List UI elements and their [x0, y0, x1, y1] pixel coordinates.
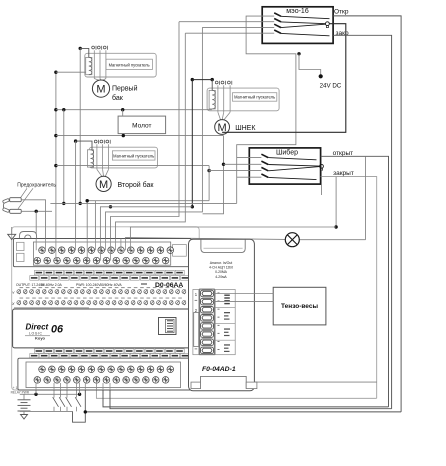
wire module to scales +: [211, 293, 273, 295]
wire Shiber common down stub: [321, 170, 323, 195]
svg-text:М: М: [96, 84, 105, 96]
magnetic starter KM2 (Shnek): [207, 88, 279, 111]
junction B1/y136: [54, 134, 57, 137]
svg-text:Молот: Молот: [132, 122, 151, 129]
junction Molot bottom: [122, 134, 125, 137]
phase contacts KM1 (Pervyi bak): [93, 50, 95, 78]
motor KM3 (Vtoroi bak): [96, 176, 111, 191]
wire stubs entering PLC top terminals: [35, 239, 37, 251]
contactor coil KM2 (Shnek): [209, 90, 215, 109]
PLC bottom terminal strip: [18, 358, 191, 390]
svg-text:Магнитный пускатель: Магнитный пускатель: [113, 153, 154, 158]
junction x110/y207: [109, 205, 112, 208]
top strip screw terminals row 2: [34, 257, 169, 264]
phase contacts KM2 (Shnek): [217, 85, 219, 112]
wire otkryt bottom run: [103, 390, 389, 407]
wire Otkr bottom run: [85, 411, 401, 413]
svg-text:4-20мА: 4-20мА: [215, 275, 227, 279]
motor KM2 (Shnek): [215, 120, 230, 135]
switch contacts inside Shiber: [261, 154, 268, 157]
indicator lamp HL1: [285, 233, 299, 247]
svg-text:Direct: Direct: [26, 323, 49, 332]
bottom strip screw terminals row 1: [39, 366, 174, 373]
wire KM1 coil top feed: [80, 48, 89, 57]
junction B1/y110: [54, 108, 57, 111]
analog module F0-04AD-1 body: [189, 239, 255, 391]
wire battery top: [23, 394, 25, 400]
PLC right DIN ear: [194, 313, 199, 347]
wire zakr right loop: [333, 35, 392, 408]
magnetic starter KM3 (Vtoroi bak): [89, 147, 157, 168]
module top handle: [201, 239, 245, 252]
svg-text:24V DC: 24V DC: [320, 82, 342, 89]
svg-text:50-60Hz 2.0A: 50-60Hz 2.0A: [41, 283, 62, 287]
wire lamp to otkryt: [365, 156, 367, 239]
wire Molot bottom: [122, 134, 124, 136]
wire stubs leaving PLC bottom terminals: [35, 383, 37, 390]
wire branch to Shiber row4: [237, 176, 262, 178]
MEO-16 common terminal: [326, 22, 330, 26]
junction Shiber row3: [207, 169, 210, 172]
wire comb x95: [94, 201, 96, 251]
junction B2 top: [62, 108, 65, 111]
wire F2 down to PLC: [35, 211, 37, 250]
wire into Shiber row2: [224, 163, 262, 165]
gate valve box Shiber: [249, 148, 320, 184]
svg-text:Аналог. In/Out: Аналог. In/Out: [210, 261, 233, 265]
relay contact switches: [53, 390, 55, 398]
wire KM3 coil top feed: [76, 141, 92, 150]
wire F1 down to PLC: [21, 200, 45, 250]
wire MEO common to motor M2: [222, 24, 346, 133]
phase contacts KM3 (Vtoroi bak): [96, 144, 98, 169]
Shiber common terminal: [320, 164, 324, 168]
contactor coil KM3 (Vtoroi bak): [87, 150, 93, 167]
junction rail/x36: [34, 393, 37, 396]
svg-text:Магнитный пускатель: Магнитный пускатель: [234, 94, 275, 99]
junction y207: [191, 205, 194, 208]
motor KM1 (Pervyi bak): [92, 80, 109, 97]
PLC main body: [13, 309, 194, 348]
svg-text:Koyo: Koyo: [35, 336, 46, 341]
wire x336 down from zakryt: [335, 177, 337, 227]
top terminal label strip row A: [35, 270, 185, 275]
PLC top terminal strip: [13, 239, 191, 267]
wire zakryt right loop: [321, 177, 377, 399]
wire to 24V DC: [299, 54, 321, 75]
wire PLC drop x36: [35, 390, 37, 394]
svg-text:Первый: Первый: [112, 85, 138, 93]
wire branch to Shiber row1: [237, 156, 262, 158]
svg-text:Тензо-весы: Тензо-весы: [281, 303, 318, 310]
junction KM3 coil feed: [74, 139, 77, 142]
wire into Molot top: [122, 110, 124, 116]
top strip screw terminals row 1: [39, 247, 174, 254]
bottom label strip row B: [30, 354, 190, 358]
magnetic starter KM1 (Pervyi bak): [85, 53, 156, 77]
fuse F1: [10, 198, 22, 202]
wire bus B2: [63, 110, 65, 204]
wire zakr bottom run: [110, 390, 392, 409]
ground under battery: [21, 415, 28, 420]
wire lamp line right: [299, 239, 365, 241]
svg-text:Магнитный пускатель: Магнитный пускатель: [109, 63, 150, 68]
wire into Shnek coil: [211, 80, 213, 91]
wire into Shiber row3: [209, 170, 261, 172]
wire y110 to Shnek column: [56, 109, 212, 111]
svg-text:50/60Hz 40VA: 50/60Hz 40VA: [100, 283, 122, 287]
bottom label strip row A: [35, 349, 185, 353]
wire Otkr right loop: [333, 16, 401, 412]
wire Shiber row2 column: [203, 136, 224, 214]
wire y200 down to PLC: [87, 201, 209, 261]
wire case to ground: [11, 227, 13, 234]
wire MEO row4: [185, 32, 274, 34]
junction B1/y166: [54, 164, 57, 167]
terminal 24V DC: [319, 74, 323, 78]
svg-text:Второй бак: Второй бак: [118, 181, 155, 189]
wire bus B1 down to PLC: [55, 72, 57, 260]
wire PLC drop x79: [79, 390, 81, 394]
wire y166 to Shiber row3 column: [56, 165, 209, 167]
wire MEO row3: [202, 26, 274, 28]
svg-text:М: М: [99, 179, 108, 191]
wire y203: [50, 202, 236, 204]
svg-text:Откр: Откр: [334, 9, 349, 16]
junction Shnek feed right: [211, 78, 214, 81]
svg-text:Y: Y: [12, 290, 15, 295]
wire MEO row2: [179, 21, 274, 23]
wire Shnek column down: [191, 80, 193, 207]
contactor coil KM1 (Pervyi bak): [86, 57, 92, 74]
svg-text:0-20МА: 0-20МА: [215, 270, 228, 274]
junction Shnek feed left: [191, 78, 194, 81]
svg-text:закрыт: закрыт: [333, 170, 354, 177]
wire otkryt right loop: [321, 156, 389, 407]
wire MEO row4 down to PLC: [116, 33, 186, 250]
mains plug: [3, 201, 6, 211]
wire MEO row2 down to PLC: [111, 22, 180, 261]
junction KM1 coil feed: [79, 47, 82, 50]
svg-text:мэо-16: мэо-16: [286, 8, 309, 15]
module terminal block: [200, 289, 215, 355]
wire F2 right: [21, 210, 52, 212]
PLC DL06 mounting ear top-left: [19, 232, 37, 247]
wire bus B3 to PLC: [75, 141, 77, 250]
module bottom DIN latch: [201, 376, 247, 388]
strain gauge scales box Tenzo-vesy: [273, 287, 326, 325]
junction B4 bottom: [79, 202, 82, 205]
wire Shnek coil feed: [192, 79, 212, 81]
module channel legend column: [215, 290, 235, 355]
wire zakryt bottom run: [96, 390, 376, 398]
hammer box Molot: [118, 116, 166, 134]
wire y136 to Shiber column: [56, 135, 224, 137]
wire U-step to PLC: [73, 390, 86, 422]
actuator box MEO-16: [262, 7, 333, 44]
wire lamp line sloped from PLC: [125, 238, 285, 251]
wire module to scales -: [211, 300, 273, 302]
wire PLC to zakryt vertical y382: [191, 381, 377, 383]
comm port: [159, 318, 177, 335]
svg-text:06: 06: [51, 324, 64, 336]
junction B1 top: [54, 71, 57, 74]
top terminal label strip row B: [30, 276, 190, 281]
junction U-step/bottom run: [84, 410, 87, 413]
junction Molot top: [121, 108, 124, 111]
junction Shiber row2: [222, 163, 225, 166]
wire MEO row3 down to PLC: [106, 27, 203, 250]
junction 24V branch: [297, 52, 300, 55]
junction B2 bottom: [62, 202, 65, 205]
wire Shiber row3 column: [208, 166, 210, 201]
junction rail/x79: [78, 393, 81, 396]
junction x336/y227: [334, 225, 337, 228]
wire B1 to KM1 coil: [56, 71, 86, 73]
svg-text:F0-04AD-1: F0-04AD-1: [202, 366, 236, 373]
svg-text:бак: бак: [112, 94, 124, 102]
wire y227 from PLC: [130, 227, 336, 250]
svg-text:Предохранитель: Предохранитель: [17, 183, 56, 189]
wire y207 down to PLC: [100, 207, 192, 261]
wire bus B4: [79, 48, 81, 203]
svg-text:4-СН АЦП 12bit: 4-СН АЦП 12bit: [209, 266, 233, 270]
wire MEO row1 loop down: [237, 16, 296, 203]
junction x87/y200: [86, 199, 89, 202]
svg-text:PWR: 100-240V: PWR: 100-240V: [76, 283, 101, 287]
PLC case outline: [12, 227, 200, 390]
wire bottom rail: [20, 410, 73, 412]
fuse F2: [10, 209, 22, 213]
module terminal numbers column: [193, 290, 199, 355]
svg-text:ШНЕК: ШНЕК: [235, 125, 256, 132]
switch contacts inside MEO-16: [274, 13, 281, 16]
wire battery bottom: [23, 411, 25, 415]
wire top rail: [20, 393, 80, 395]
junction F2/x36: [35, 210, 38, 213]
bottom strip screw terminals row 2: [34, 377, 169, 384]
svg-text:X: X: [11, 301, 15, 306]
svg-text:Шибер: Шибер: [276, 149, 298, 157]
